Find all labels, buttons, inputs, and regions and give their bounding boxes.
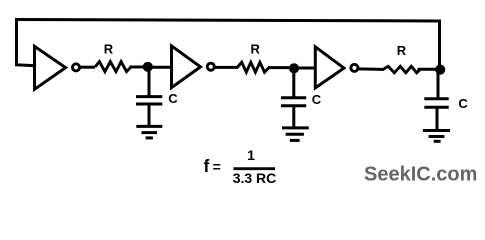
svg-text:C: C: [168, 91, 178, 106]
wire R1 to node A: [130, 66, 150, 69]
C3 top plate: [424, 97, 448, 100]
wire U3 output to R3: [358, 67, 384, 71]
capacitor C3: [424, 70, 468, 131]
wire R2 to node B: [268, 66, 296, 69]
wire node B to U3 input: [296, 67, 317, 70]
wire R3 to node C: [418, 68, 441, 71]
formula fraction bar: [234, 167, 276, 170]
wire node C down to C3 top plate: [437, 70, 440, 98]
capacitor C1: [136, 67, 178, 127]
wire node A down to C1 top plate: [148, 67, 151, 96]
capacitor C2: [281, 68, 322, 128]
wire input to U1: [15, 65, 36, 66]
resistor R2: [237, 41, 269, 72]
resistor R1: [95, 41, 131, 71]
svg-text:f: f: [204, 156, 210, 176]
wire C3 bottom plate to ground: [436, 107, 439, 130]
inverter U2: [172, 46, 215, 88]
formula f = 1 / 3.3RC: [204, 147, 277, 186]
node A junction: [143, 62, 153, 72]
C2 top plate: [281, 96, 306, 99]
inverter U1: [35, 46, 80, 89]
wire right vertical (node C up to feedback): [438, 21, 441, 70]
svg-text:R: R: [397, 43, 407, 58]
wire U1 output to R1: [79, 66, 95, 69]
wire node A to U2 input: [150, 66, 173, 69]
resistor R3: [383, 43, 420, 73]
C2 bottom plate: [281, 104, 306, 107]
C3 bottom plate: [424, 106, 448, 109]
svg-text:C: C: [312, 92, 322, 107]
ground (below C3): [423, 131, 450, 142]
wire U2 output to R2: [214, 66, 238, 69]
C1 top plate: [136, 95, 162, 98]
svg-text:R: R: [104, 41, 114, 56]
svg-text:R: R: [251, 41, 261, 56]
svg-text:SeekIC.com: SeekIC.com: [364, 163, 477, 185]
node B junction: [289, 63, 299, 73]
svg-text:=: =: [213, 158, 221, 174]
svg-text:3.3 RC: 3.3 RC: [233, 170, 277, 186]
wire C2 bottom plate to ground: [292, 106, 295, 128]
node C junction: [435, 65, 445, 75]
ground (below C2): [282, 128, 309, 140]
C1 bottom plate: [136, 103, 162, 106]
wire node B down to C2 top plate: [292, 68, 295, 97]
ground (below C1): [136, 126, 162, 137]
inverter U3: [315, 47, 358, 88]
wire C1 bottom plate to ground: [148, 104, 151, 126]
wire left vertical: [15, 20, 18, 67]
svg-text:C: C: [458, 96, 468, 111]
wire top feedback (node C to U1 input): [15, 20, 441, 22]
svg-text:1: 1: [247, 147, 255, 163]
